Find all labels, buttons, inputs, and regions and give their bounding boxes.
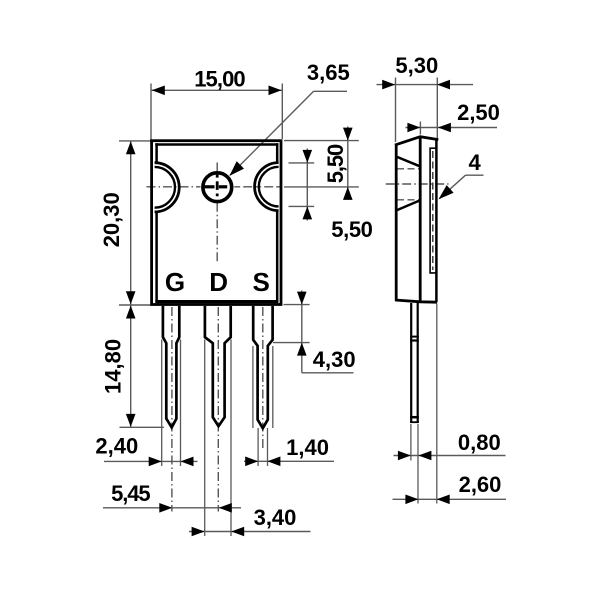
side view chamfer diagonal lower — [396, 200, 420, 210]
hole center mark vertical dot above — [216, 175, 219, 178]
svg-text:20,30: 20,30 — [99, 192, 124, 247]
dimension 4,30 arrow top — [297, 292, 307, 305]
pin G edge extension lines — [161, 340, 163, 467]
side view hidden hole bottom edge — [397, 199, 419, 201]
dimension 20,30 arrow bottom — [126, 291, 136, 304]
svg-text:2,50: 2,50 — [457, 100, 500, 125]
dimension 5,50 lower line — [306, 149, 308, 221]
dimension 15,00 arrow right — [269, 86, 282, 96]
svg-text:1,40: 1,40 — [286, 435, 329, 460]
dimension 2,50 extension stub — [419, 122, 421, 135]
dimension 2,60 arrow right — [437, 495, 450, 505]
dimension 2,50 line — [406, 127, 498, 129]
dimension 3,40 arrow left — [192, 527, 205, 537]
dimension 2,60 arrow left — [405, 495, 418, 505]
dimension 1,40 arrow left — [245, 457, 258, 467]
dimension 5,50 upper line — [347, 127, 349, 200]
dimension 2,50 arrow left — [407, 123, 420, 133]
dimension 0,80 arrow right — [418, 451, 431, 461]
package body front view inner outline bottom — [155, 300, 278, 303]
side view left edge — [395, 145, 398, 301]
dimension 20,30 arrow top — [126, 141, 136, 154]
dimension 4,30 shelf under text — [302, 372, 354, 374]
svg-text:S: S — [253, 267, 270, 297]
label 3,65 leader shelf — [314, 90, 347, 92]
dimension 4,30 line — [301, 291, 303, 373]
svg-text:2,60: 2,60 — [459, 472, 502, 497]
dimension 14,80 arrow bottom — [126, 414, 136, 427]
side view back face extension line down — [436, 304, 438, 504]
svg-text:14,80: 14,80 — [101, 339, 126, 394]
hole horizontal centerline left — [147, 186, 201, 188]
dimension 1,40 arrow right — [267, 457, 280, 467]
dimension 14,80 extension line bottom — [120, 426, 165, 428]
dimension 20,30 and 14,80 line — [130, 141, 132, 427]
dimension 20,30 extension line top — [119, 140, 155, 142]
pin G outline — [163, 306, 179, 427]
side view right back edge — [435, 140, 438, 303]
side pin left extension — [410, 424, 412, 461]
hole center mark vertical dot below — [216, 194, 219, 197]
side view top slanted edges — [395, 137, 438, 145]
hole center mark horizontal dash right — [219, 185, 227, 188]
side view hidden hole top edge — [397, 168, 419, 170]
svg-text:4: 4 — [468, 150, 481, 175]
dimension 5,50 lower extension bottom — [289, 205, 315, 207]
side pin right extension — [417, 424, 419, 504]
package body front view inner outline top — [155, 143, 278, 146]
dimension 5,50 upper extension at body top — [284, 140, 359, 142]
hole vertical centerline below — [216, 203, 218, 264]
dimension 2,60 line — [393, 498, 507, 500]
dimension 15,00 extension line left — [150, 84, 152, 145]
side view slot outline — [430, 148, 436, 273]
label 4 leader diagonal — [439, 175, 465, 198]
pin S outline — [253, 306, 272, 428]
hole vertical centerline above — [216, 163, 218, 172]
side view chamfer diagonal upper — [396, 157, 420, 167]
svg-text:5,30: 5,30 — [395, 53, 438, 78]
pin D edge extension lines — [204, 340, 206, 537]
side view pin lower crimp bar — [410, 416, 419, 419]
hole centerline extension to the right — [284, 186, 359, 188]
dimension 0,80 arrow left — [398, 451, 411, 461]
package body front view outer outline — [152, 141, 281, 305]
svg-text:5,45: 5,45 — [111, 481, 150, 506]
dimension 15,00 arrow left — [152, 86, 165, 96]
label 3,65 leader diagonal — [230, 91, 314, 175]
svg-text:5,50: 5,50 — [331, 217, 372, 242]
dimension 15,00 extension line right — [281, 84, 283, 140]
dimension 4,30 extension top at body bottom right — [284, 304, 310, 306]
dimension 14,80 arrow top — [126, 306, 136, 319]
svg-text:5,50: 5,50 — [323, 144, 348, 183]
dimension 5,50 lower extension top — [289, 162, 315, 164]
svg-text:0,80: 0,80 — [458, 430, 501, 455]
svg-text:4,30: 4,30 — [313, 347, 356, 372]
side view pin upper crimp bars — [410, 336, 419, 338]
right notch inner arc — [259, 167, 279, 207]
dimension 15,00 line — [151, 89, 282, 91]
hole horizontal centerline right — [234, 186, 282, 188]
svg-text:3,40: 3,40 — [254, 505, 297, 530]
side view pin edges — [410, 303, 412, 423]
dimension 2,40 arrow right — [181, 457, 194, 467]
dimension 2,50 arrow right — [438, 123, 451, 133]
pin G centerline — [171, 307, 173, 512]
side view pin bottom end bar — [410, 421, 419, 423]
svg-text:G: G — [165, 267, 185, 297]
dimension 5,50 upper arrow top — [343, 128, 353, 141]
dimension 3,40 line — [189, 531, 311, 533]
side view bottom edge — [395, 300, 437, 302]
dimension 5,30 arrow left — [382, 80, 395, 90]
hole center mark vertical bar — [216, 181, 219, 190]
pin D centerline — [217, 307, 219, 512]
package body inner outline right segments — [276, 143, 279, 162]
mounting hole — [203, 173, 232, 202]
dimension 5,45 line — [103, 507, 241, 509]
pin D outline — [205, 306, 231, 426]
svg-text:2,40: 2,40 — [95, 434, 138, 459]
svg-text:D: D — [209, 267, 228, 297]
label 4 leader arrowhead — [439, 185, 454, 199]
dimension 2,40 arrow left — [149, 457, 162, 467]
dimension 5,30 arrow right — [437, 80, 450, 90]
dimension 1,40 line — [244, 460, 334, 462]
dimension 0,80 line — [394, 455, 506, 457]
side view slot hidden centerline — [432, 151, 434, 270]
dimension 5,30 line — [377, 84, 474, 86]
svg-text:3,65: 3,65 — [307, 60, 350, 85]
dimension 4,30 arrow bottom — [297, 343, 307, 356]
pin S centerline — [262, 307, 264, 449]
side view horizontal centerline — [386, 183, 449, 185]
dimension 5,50 lower arrow bottom — [303, 206, 313, 219]
left notch outer arc — [155, 163, 180, 212]
dimension 5,30 extension right — [436, 78, 438, 139]
label 4 leader shelf — [466, 174, 484, 176]
dimension 5,45 arrow left — [159, 503, 172, 513]
dimension 5,50 lower arrow top — [303, 150, 313, 163]
svg-text:15,00: 15,00 — [194, 66, 245, 91]
dimension 4,30 extension bottom at pin shoulder — [273, 342, 310, 344]
right notch outer arc — [255, 163, 279, 211]
left notch inner arc — [155, 167, 175, 208]
dimension 5,50 upper arrow bottom — [343, 187, 353, 200]
hole center mark horizontal dash left — [205, 185, 215, 188]
dimension 20,30 / 14,80 shared extension line at body bottom — [119, 304, 152, 306]
dimension 2,40 line — [104, 460, 198, 462]
label 3,65 leader arrowhead — [229, 161, 244, 176]
pin S edge extension lines — [252, 346, 254, 428]
package body inner outline left segments — [155, 143, 158, 162]
side view front ridge line — [419, 137, 422, 302]
dimension 3,40 arrow right — [231, 527, 244, 537]
dimension 5,45 arrow right — [219, 503, 232, 513]
dimension 5,30 extension left — [395, 78, 397, 143]
